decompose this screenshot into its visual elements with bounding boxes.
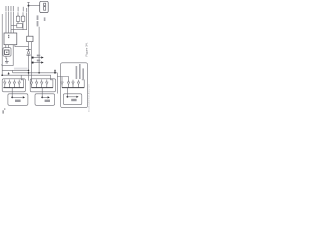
wire (drop from G1 bus to jumper box J2) bbox=[11, 88, 13, 98]
wire (horizontal y65.6 to left rail, with end tick) bbox=[2, 65, 13, 67]
connector group G1 (bottom-left container box) bbox=[2, 79, 25, 92]
wire (bundle line 1 into U1 top) bbox=[5, 12, 7, 34]
wire (vertical x57.3 down between groups) bbox=[56, 73, 58, 94]
power symbol (up arrow at x8.6 on rail B) bbox=[8, 72, 10, 75]
svg-text:Downloaded from Arrow.com: Downloaded from Arrow.com bbox=[88, 84, 91, 112]
capacitor C1 (box symbol with top bump) bbox=[16, 12, 20, 23]
transistor Q1 (small box right of U1) bbox=[27, 36, 33, 41]
wire (hook from rail B into G1 bus) bbox=[21, 75, 23, 87]
wire (power rail A, y72.8) bbox=[13, 72, 58, 74]
diode DB2 (open V symbol) bbox=[35, 80, 37, 88]
wire (bundle line 3 into U1 top) bbox=[10, 12, 12, 34]
crystal Y1 (outer rounded box with inner plate box) bbox=[3, 48, 11, 57]
connector group G3 (bottom-right large container box) bbox=[61, 63, 88, 108]
net labels (rotated pin names inside G3) bbox=[76, 64, 84, 79]
connector J3 (rounded box with node dot, arrow and label) bbox=[35, 94, 55, 106]
wire (drop from G3 bus to jumper box J4) bbox=[66, 88, 68, 97]
wire (drop from G2 bus to jumper box J3) bbox=[41, 88, 43, 98]
wire (reset net vertical x28.5 with top tick) bbox=[28, 3, 30, 36]
diode DC3 (open V symbol) bbox=[72, 80, 74, 88]
connector J1 (rounded box, top right, with pin detail) bbox=[40, 1, 49, 12]
net label (rotated text beside x39.1 wire and under J1) bbox=[37, 15, 46, 26]
ferrite bead FB2 (square pad, lead, arrowhead, value label) bbox=[32, 60, 44, 64]
wire (Q1 second lead down to bottom-middle group) bbox=[31, 42, 33, 81]
connector J4 (rounded box with node dot, arrow and label) bbox=[63, 94, 81, 105]
wire (G2 ground bus) bbox=[31, 87, 53, 89]
diode DA3 (open V symbol) bbox=[13, 80, 15, 88]
connector group G2 (bottom-middle container box) bbox=[30, 79, 55, 92]
wire (power rail B, y75.2, with corner and hook into middle group) bbox=[2, 75, 53, 87]
junction (D1 net meets y70.4 wire) bbox=[28, 70, 30, 72]
wire (hook into G3 bus at x84.2) bbox=[82, 80, 84, 88]
wire (horizontal at y29.7, lines 3..x26.7) bbox=[11, 29, 27, 31]
wire (U1 pin to Y1 lead 2) bbox=[8, 45, 10, 48]
junction (x39.1 wire meets rail A) bbox=[38, 72, 40, 74]
diode DC1 (open V symbol) bbox=[61, 82, 63, 88]
wire (vertical at x26.7) bbox=[26, 13, 28, 30]
junction (D1 net crosses rail A) bbox=[28, 72, 30, 74]
diode DB3 (open V symbol) bbox=[41, 80, 43, 88]
wire (stub down to arrow at x62) bbox=[61, 77, 63, 83]
diode D1 (cathode bar + triangle, apex up) bbox=[26, 50, 31, 56]
footnote mark (bottom-left) bbox=[3, 109, 6, 114]
resistor R1 (box below C1) bbox=[17, 24, 23, 28]
net label (faint text band left of node x28.5) bbox=[14, 68, 28, 70]
wire (D1 anode down to rails) bbox=[28, 55, 30, 80]
wire (left vertical rail from top to rail B) bbox=[1, 14, 3, 75]
diode DB4 (open V symbol) bbox=[46, 80, 48, 88]
wire (vertical x13.2, U1 bottom pin down) bbox=[12, 45, 14, 66]
junction (reset net to J1 branch) bbox=[28, 5, 30, 7]
wire (horizontal y70.4 from left rail to x28.5) bbox=[2, 69, 28, 71]
wire (G1 ground bus) bbox=[3, 87, 23, 89]
wire (bundle line 4 into U1 top) bbox=[13, 12, 15, 34]
wire (G3 ground bus) bbox=[62, 87, 84, 89]
diode DC2 (open V symbol) bbox=[67, 81, 69, 88]
op-amp U1 (main IC box with part-number text) bbox=[4, 33, 17, 45]
diode DA2 (open V symbol) bbox=[8, 80, 10, 88]
wire (entry into right group at y76.5 with corner to x68.5) bbox=[57, 77, 68, 82]
ground (under crystal Y1) bbox=[5, 56, 9, 63]
power symbol (up arrow at x55 on rail A) bbox=[54, 69, 56, 74]
wire (U1 pin to Y1 lead 1) bbox=[5, 45, 7, 48]
connector J2 (rounded box with node dot, arrow and label) bbox=[8, 94, 28, 106]
diode DA1 (open V symbol) bbox=[4, 80, 6, 88]
wire (U1 bottom pin x14.9 to node at x28.5) bbox=[14, 45, 16, 47]
wire (horizontal to connector J1) bbox=[29, 5, 40, 7]
wire (Q1 lead down to D1) bbox=[28, 42, 30, 50]
wire (horizontal, bundle line 3 to R1 left side) bbox=[11, 24, 17, 26]
wire (long vertical x39.1 down to rail A) bbox=[38, 27, 40, 73]
diode DA4 (open V symbol) bbox=[18, 80, 20, 88]
diode DC4 (open V symbol) bbox=[77, 80, 79, 88]
net labels (tiny rotated pin names above top-left wire bundle) bbox=[5, 6, 27, 12]
wire (corner x12.6 joining y70.4 to rail A) bbox=[12, 70, 14, 72]
capacitor C2 (box symbol with top bump) bbox=[21, 12, 25, 30]
figure caption (rotated "Figure 34.") bbox=[85, 42, 89, 56]
wire (bundle line 2 into U1 top) bbox=[8, 12, 10, 34]
svg-text:Figure 34.: Figure 34. bbox=[85, 42, 89, 56]
ferrite bead FB1 (square pad, lead, arrowhead, value label) bbox=[32, 55, 44, 59]
junction (left rail meets rail B) bbox=[1, 74, 3, 76]
diode DB1 (open V symbol) bbox=[30, 80, 32, 88]
